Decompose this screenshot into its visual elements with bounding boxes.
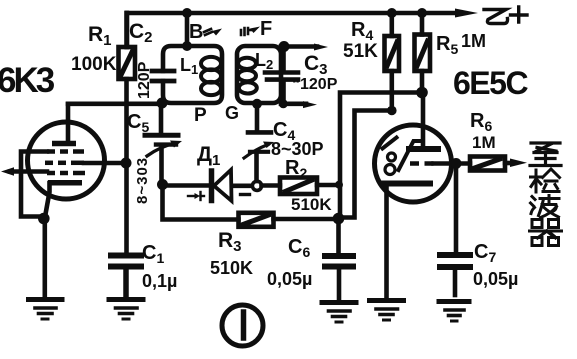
svg-text:8~303: 8~303 [134,157,151,204]
node grid output junction [451,158,462,169]
wire B+ top rail [127,11,459,16]
node R4 bottom junction [387,106,397,116]
ground (C7) [439,302,469,322]
node diode output ring [252,181,261,190]
icon F core-adjust arrow [241,27,260,36]
capacitor C6 [325,219,353,300]
node B+ arrow to 乙+ [455,9,478,18]
svg-text:P: P [194,105,207,126]
diode D1 [167,170,251,201]
svg-text:“120P: “120P [292,76,338,93]
pin cathode bar 6K3 [48,180,82,186]
pin grid g2 dashes [45,161,84,166]
icon B core-adjust arrow [204,29,222,36]
node rail junction to L1 [182,8,192,18]
ground (6E5C cathode) [370,301,404,321]
svg-text:0,05µ: 0,05µ [473,269,518,289]
capacitor C7 [440,164,470,296]
node C4 top junction [252,99,262,109]
svg-text:0,1µ: 0,1µ [142,271,177,291]
wire plate to tank bottom [68,102,160,107]
wire bracket g3 to cathode [21,152,47,217]
svg-text:6E5C: 6E5C [453,65,528,101]
node figure number circle 1 [222,305,263,346]
node rail junction R4 [387,8,397,18]
ground (C6) [322,303,356,323]
svg-text:0,05µ: 0,05µ [267,269,312,289]
resistor R6 [456,157,513,171]
ground (C1) [109,300,143,320]
label 至 drawn [530,143,561,166]
pin plate bar 6K3 [52,141,76,147]
resistor R2 [262,178,338,195]
resistor R5 [415,13,431,93]
node R2 right junction [335,181,343,189]
pin ray electrode diagonal [399,141,424,170]
pin target bar [409,146,438,152]
resistor R3 [163,185,336,227]
node C3 bottom junction [279,99,288,108]
node C3 top junction [279,41,290,52]
pin deflector diagonal [383,138,397,149]
wire R1 bottom down to C1 [124,79,129,253]
icon minus sign [241,193,250,196]
pin dot electrode 2 [385,165,395,175]
svg-text:510K: 510K [210,258,253,278]
node rail junction R5 [417,8,427,18]
pin grid g3 dashes [47,149,84,154]
wire R4 to AVC node [342,111,392,218]
wire L2 bottom to arrow [281,102,306,107]
wire rail to L1 top [185,13,190,46]
wire input with arrow [10,169,47,174]
node detector node [157,179,168,190]
svg-text:51K: 51K [343,41,378,62]
capacitor C1 [111,256,141,297]
svg-text:1M: 1M [472,133,496,152]
svg-text:100K: 100K [71,54,117,75]
wire 6K3 plate lead up [66,104,71,142]
label 波 drawn [531,196,560,218]
coil L1 loops [201,57,221,95]
svg-text:G: G [225,103,239,123]
node cathode junction [38,213,50,225]
svg-text:6K3: 6K3 [0,61,55,100]
node tank bottom junction [157,98,168,109]
wire cathode to ground [42,219,47,297]
wire R5 node to AVC vertical [340,93,422,216]
coil L2 tank box [237,46,281,103]
node output arrow [510,159,527,168]
svg-text:120P: 120P [136,61,153,99]
svg-text:B: B [189,21,203,43]
capacitor C5 variable [145,103,182,181]
coil L1 tank box [163,46,222,103]
wire grid lead out [434,161,453,166]
tube V1 6K3 envelope [28,122,105,199]
capacitor C3 [265,47,298,104]
svg-text:1M: 1M [461,31,486,51]
pin dot electrode 1 [388,153,396,161]
pin grid g1 dashes [47,171,85,176]
capacitor C2 (in L1 tank left edge) [152,71,174,81]
svg-text:8~30P: 8~30P [271,139,324,159]
wire rail corner down to R1 [125,13,130,47]
pin cathode bar 6E5C [384,181,430,187]
icon diode polarity mark [188,192,204,200]
label 乙 (B+) drawn [484,10,508,24]
resistor R1 [119,13,136,79]
node R5 bottom junction [416,87,428,99]
wire screen grid to junction [84,161,121,166]
coil L2 loops [238,58,257,94]
capacitor C4 variable [244,104,274,181]
resistor R4 [385,13,400,111]
label 检 drawn [531,169,560,192]
ground (6K3 cathode) [29,300,63,320]
node screen junction [121,158,132,169]
wire target lead [421,93,426,147]
pin grid dashes 6E5C [410,161,434,166]
wire 6E5C cathode to ground [384,187,389,298]
wire cathode hook down [45,183,50,218]
wire L2 top to arrow [281,44,317,49]
svg-text:F: F [260,18,272,40]
label 器 drawn [530,220,562,246]
tube V2 6E5C envelope [375,125,452,202]
label + (B+) drawn [511,7,528,22]
node L1 top junction [182,41,192,51]
node AVC junction [333,213,345,225]
svg-text:510K: 510K [291,195,332,214]
